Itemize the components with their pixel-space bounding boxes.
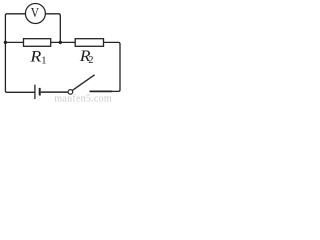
svg-text:1: 1 xyxy=(41,56,46,67)
wire: between R1 and R2 xyxy=(51,41,75,43)
svg-text:V: V xyxy=(31,5,40,20)
wire: battery to switch xyxy=(41,91,68,93)
switch S1 pivot circle xyxy=(68,90,73,95)
wire: middle row right, right side down, bottom-right to switch xyxy=(104,42,121,91)
svg-text:manfen5.com: manfen5.com xyxy=(54,93,111,103)
resistor R2 xyxy=(75,39,103,47)
switch S1 lever xyxy=(72,75,94,91)
battery B1 short thick plate xyxy=(39,88,41,96)
node dot between R1 and R2 xyxy=(59,41,62,44)
node dot at left of R1 xyxy=(4,41,7,44)
svg-text:R: R xyxy=(29,48,41,66)
resistor R1 xyxy=(24,39,51,47)
battery B1 long plate xyxy=(34,85,36,100)
wire: middle row left segment xyxy=(5,41,23,43)
voltmeter V1 xyxy=(25,4,45,24)
wire left loop: top-left, left side, bottom-left xyxy=(5,14,35,93)
svg-text:2: 2 xyxy=(88,55,93,66)
wire: voltmeter right down to node between R1 and R2 xyxy=(45,14,60,43)
wire: bottom right to switch contact xyxy=(90,90,113,92)
